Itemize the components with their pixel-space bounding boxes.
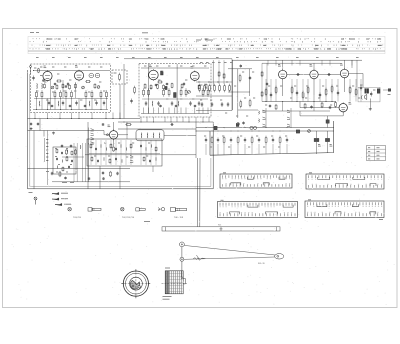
capacitor C58 (56, 158, 58, 159)
wire det h2 (238, 109, 258, 111)
coil L12 (152, 133, 155, 138)
resistor R46 (239, 74, 241, 76)
wire (351, 60, 353, 68)
wire junction (155, 157, 157, 161)
capacitor C34 (296, 74, 297, 76)
wire (279, 144, 281, 153)
resistor R47 (240, 100, 242, 102)
jumper links K2 (318, 177, 376, 186)
capacitor C53 (272, 138, 274, 140)
core F3 (296, 130, 299, 133)
wire (39, 119, 41, 131)
coil L18 (105, 148, 108, 151)
wire (188, 117, 190, 122)
capacitor C22 (166, 82, 168, 85)
resistor R75 (56, 148, 58, 151)
capacitor C72 (51, 172, 53, 173)
jumper links K4 (317, 204, 376, 214)
wire det chain spine (261, 63, 263, 101)
capacitor C66 (140, 144, 142, 145)
resistor R36 (181, 83, 183, 84)
resistor R44 (224, 84, 226, 86)
resistor R7 (71, 90, 73, 92)
trimmer TC5 (308, 130, 311, 133)
wire (36, 99, 38, 110)
capacitor C54 (286, 138, 288, 140)
trimmer TC1 (51, 86, 54, 89)
wire rf v3 (75, 82, 77, 98)
wire HT bus IF box (141, 67, 209, 69)
wire (230, 144, 232, 154)
wire (118, 134, 128, 136)
jumper links K3 (230, 205, 294, 215)
capacitor C6 (103, 101, 105, 103)
resistor R67 (211, 136, 213, 138)
wire avc v2 (223, 60, 225, 84)
resistor R20 (119, 73, 121, 75)
capacitor C36 (270, 93, 272, 95)
scan noise speckle (6, 31, 394, 304)
resistor R69 (237, 136, 239, 138)
wire (164, 134, 196, 136)
wire IF box bottom bus (141, 113, 209, 115)
electrolytic C31 (377, 89, 380, 93)
wire (100, 99, 102, 110)
wire (47, 99, 49, 110)
resistor R31 (171, 83, 173, 84)
wire (196, 110, 232, 112)
tube V2 EF89 (74, 71, 83, 80)
contact numbering K4 (307, 207, 382, 213)
resistor R11 (106, 90, 108, 92)
capacitor C42 (329, 106, 331, 107)
switch contact S1d (287, 110, 290, 112)
resistor R10 (100, 90, 102, 92)
wire (223, 144, 225, 155)
resistor R37 (198, 84, 200, 85)
resistor R16 (56, 84, 58, 85)
drum bracket (183, 279, 185, 284)
wire (105, 113, 107, 119)
capacitor C64 (95, 147, 97, 148)
resistor R13 (85, 81, 86, 83)
capacitor C19 (198, 101, 200, 103)
wire (383, 89, 388, 91)
capacitor C30 (240, 64, 242, 65)
resistor R76 (71, 150, 73, 153)
capacitor C23 (160, 104, 162, 107)
wire V6 cathode down (313, 95, 315, 111)
wire switch column (265, 108, 267, 128)
trimmer TC2 (82, 86, 85, 89)
resistor R48 (249, 99, 251, 101)
long verticals to bottom bus (73, 143, 75, 182)
resistor R40 (204, 84, 206, 86)
resistor R2 (36, 90, 38, 92)
tube V6 EF40 (310, 70, 318, 78)
dial scale baseline (28, 50, 385, 52)
resistor R80 (110, 143, 112, 144)
resistor R22 (143, 88, 145, 90)
resistor R9 (91, 90, 93, 92)
resistor R78 (62, 166, 64, 169)
capacitor C4 (76, 101, 78, 103)
capacitor C31 (248, 77, 249, 79)
wire avc v1 (218, 60, 220, 84)
svg-text:925: 925 (218, 225, 221, 227)
coil L9 (258, 119, 261, 122)
wire AVC bus (196, 95, 232, 97)
drive drum front view (123, 271, 148, 296)
capacitor C60 (68, 166, 70, 167)
capacitor C35 (327, 74, 328, 76)
capacitor C55 (61, 144, 63, 145)
svg-text:FIG. 20: FIG. 20 (258, 263, 266, 265)
capacitor C46 (37, 122, 39, 123)
resistor R73 (66, 149, 68, 150)
wire bus below IF box (118, 121, 213, 123)
wire rf v1 (50, 80, 52, 110)
IF section shield box (dashed) (139, 64, 211, 118)
arrow legend 1 (52, 192, 59, 194)
tube V3 ECH81 (149, 70, 159, 80)
resistor R61 (355, 88, 357, 90)
coil L15 (66, 150, 69, 153)
resistor R54 (275, 86, 277, 88)
lamp E2 (121, 207, 125, 211)
capacitor C12 (69, 104, 71, 107)
pulley bracket P1-P2 (181, 247, 183, 257)
capacitor C63 (103, 177, 105, 178)
resistor R53 (265, 88, 267, 90)
resistor R66 (113, 146, 115, 147)
trimmer TC6 (237, 123, 240, 126)
resistor R42 (214, 84, 216, 86)
IF box top labels (144, 65, 146, 67)
RF box top labels (40, 66, 42, 68)
wire (344, 78, 346, 92)
wire (202, 117, 204, 122)
IF transformer can 2 (176, 64, 178, 114)
resistor R58 (325, 88, 327, 90)
wire anode V7 (344, 60, 346, 69)
ground (53, 132, 55, 133)
dial scale number clusters (46, 39, 382, 49)
capacitor C17 (171, 101, 173, 103)
resistor R82 (155, 146, 157, 147)
capacitor C52 (258, 138, 260, 140)
capacitor C33 (266, 82, 268, 83)
capacitor C25 (194, 104, 196, 107)
terminal marks column (46, 139, 48, 141)
wire junction (120, 144, 122, 148)
capacitor C47 (102, 123, 104, 124)
dial cord lower run (184, 257, 275, 259)
resistor R8 (85, 90, 87, 92)
wire (251, 144, 253, 154)
wire detector top bus (228, 68, 252, 70)
capacitor C1 (33, 76, 35, 78)
wire (168, 108, 170, 114)
resistor R33 (150, 84, 152, 85)
long vertical wire x124 (123, 64, 125, 119)
wire sub-box internal bus (89, 153, 160, 155)
capacitor C43 (269, 104, 271, 105)
legend text in lower area (62, 182, 67, 184)
resistor R72 (279, 136, 281, 138)
resistor R64 (335, 101, 337, 102)
ground (369, 108, 371, 109)
dial scale band frame (28, 36, 385, 53)
wire (119, 113, 121, 119)
capacitor C29 (227, 102, 229, 104)
wire if h1 (142, 98, 208, 100)
diode D1 (89, 73, 94, 78)
dial pointer rail (925mm bar) (162, 227, 280, 231)
mounting screw symbol (34, 197, 37, 200)
drum centreline (162, 283, 188, 285)
capacitor C11 (51, 104, 53, 107)
contact arrows column V9 input (91, 129, 94, 131)
capacitor C67 (97, 159, 99, 160)
wire riser x153 low (152, 166, 154, 172)
resistor R68 (223, 136, 225, 138)
capacitor C41 (311, 105, 313, 106)
capacitor C16 (158, 101, 160, 103)
tube V1 ECH81 (43, 71, 52, 80)
resistor R1 (38, 68, 40, 69)
tuning spindle pulley P3 (275, 254, 284, 259)
resistor R26 (180, 88, 182, 90)
wire audio rail drops (267, 60, 269, 65)
wire (202, 108, 204, 114)
tube V8 EZ40 (339, 104, 347, 112)
right section bottom rail (210, 121, 334, 155)
switch contact S1a (263, 110, 266, 112)
resistor R74 (75, 149, 77, 150)
label above dial band centre (142, 32, 148, 34)
wire (282, 79, 284, 96)
drum centrelines (121, 283, 151, 285)
wire (163, 108, 165, 114)
wire V8 filament link (300, 107, 339, 109)
resistor R60 (349, 86, 351, 88)
wire (91, 99, 93, 110)
wire det v3 (249, 69, 251, 96)
wire (152, 117, 154, 122)
cord into drum (181, 261, 183, 277)
capacitor C40 (360, 86, 362, 88)
wire (282, 102, 284, 112)
wire (71, 113, 73, 119)
wire (244, 144, 246, 154)
drum text note (163, 296, 172, 298)
wire (106, 99, 108, 110)
wire (176, 117, 178, 122)
capacitor C8 (41, 80, 44, 82)
dial scale tick rows (30, 38, 383, 50)
core TR1a (314, 138, 319, 141)
resistor R39 (199, 84, 201, 86)
resistor R52 (261, 91, 263, 92)
capacitor C62 (88, 177, 90, 178)
small circle V9 input (107, 134, 109, 136)
wire (237, 144, 239, 154)
wire (65, 99, 67, 110)
wire lower bus 1 (85, 154, 196, 156)
core T1 (161, 71, 164, 75)
volume control block box (53, 147, 76, 174)
resistor R19 (75, 83, 77, 84)
ground (30, 127, 32, 128)
wire (47, 113, 49, 119)
wire riser x196 (195, 122, 197, 158)
resistor R24 (163, 88, 165, 90)
IF transformer can 1 (147, 64, 149, 114)
wire rf v2 (62, 80, 64, 98)
trimmer TC4 (188, 91, 191, 94)
wire (41, 99, 43, 110)
resistor R77 (66, 156, 68, 159)
antenna terminal A1 (30, 66, 32, 68)
resistor R56 (302, 91, 304, 93)
diode detector D3 (250, 126, 253, 129)
drum left dark band (166, 271, 169, 293)
lamp symbol with rays E3 (158, 208, 161, 211)
resistor R29 (207, 88, 209, 90)
resistor R50 (223, 73, 225, 74)
capacitor C13 (84, 104, 86, 107)
resistor R41 (209, 84, 211, 86)
capacitor C38 (319, 93, 321, 95)
wire (265, 144, 267, 154)
capacitor C45 (30, 122, 32, 123)
wire riser x88 (87, 122, 89, 189)
resistor R23 (148, 88, 150, 90)
capacitor C10 (65, 84, 67, 87)
resistor R38 (205, 83, 207, 84)
wire (316, 131, 318, 138)
wire (205, 144, 207, 155)
capacitor C26 (201, 102, 203, 104)
wire (164, 117, 166, 122)
wire to output transformer (349, 73, 363, 75)
capacitor C73 (170, 124, 171, 126)
wire (78, 113, 80, 119)
wire secondary rail (262, 62, 340, 64)
wire (47, 70, 49, 73)
resistor R51 (261, 71, 263, 72)
wire riser x100 (99, 166, 101, 189)
capacitor C14 (131, 99, 133, 101)
dial scale rules (28, 43, 385, 45)
wire audio low bus (262, 110, 330, 112)
wire riser x120 (119, 166, 121, 189)
wire grid coupling 1 (287, 74, 310, 76)
capacitor C68 (115, 157, 117, 158)
capacitor C39 (337, 91, 339, 93)
wire (182, 117, 184, 122)
wire (158, 108, 160, 114)
wire (59, 113, 61, 119)
resistor R30 (157, 81, 158, 83)
resistor R32 (144, 83, 146, 84)
capacitor C15 (145, 101, 147, 103)
coil L20 (150, 145, 153, 148)
capacitor C37 (296, 91, 298, 93)
dial cord upper run (184, 245, 275, 255)
resistor R79 (90, 143, 92, 144)
wire RF box bottom bus (33, 109, 108, 111)
wire (369, 99, 371, 108)
resistor R45 (229, 84, 231, 86)
core TR1b (325, 138, 329, 141)
capacitor C5 (96, 101, 98, 103)
resistor R5 (60, 90, 62, 92)
link lines to pointer mechanism (196, 158, 198, 227)
coil L6 (151, 101, 154, 106)
wire (33, 131, 35, 189)
wire (146, 117, 148, 122)
resistor R6 (65, 90, 67, 92)
coil L19 (125, 148, 128, 151)
wire V9 cathode (113, 139, 115, 146)
capacitor C49 (217, 138, 219, 140)
wire (54, 99, 56, 110)
resistor R17 (62, 83, 64, 84)
trimmer TC3 (97, 86, 100, 89)
arrow legend 2 (52, 198, 59, 200)
cord pulley P2 (180, 257, 184, 261)
wire V8 to power box (342, 112, 344, 116)
capacitor C7 (67, 83, 68, 85)
wire (185, 108, 187, 114)
wire audio mid bus (262, 101, 336, 103)
wire riser x232 (231, 60, 233, 110)
resistor R83 (91, 156, 93, 157)
core F1 (214, 126, 217, 129)
resistor R4 (54, 90, 56, 92)
wire junction (145, 147, 147, 151)
wire (286, 144, 288, 153)
resistor R15 (44, 83, 46, 84)
long vertical wire x120 (119, 84, 121, 119)
wire (313, 79, 315, 95)
wire (62, 156, 84, 158)
resistor R28 (202, 88, 204, 90)
resistor R27 (185, 88, 187, 90)
capacitor C27 (211, 102, 213, 104)
wire (112, 113, 114, 119)
wire (143, 108, 145, 114)
coil L7 (177, 101, 180, 106)
coil L11 (146, 133, 149, 138)
resistor R25 (168, 88, 170, 90)
wire (198, 108, 200, 114)
capacitor C28 (221, 102, 223, 104)
wire junction (121, 159, 123, 163)
capacitor C21 (155, 83, 157, 86)
resistor R85 (143, 156, 145, 157)
wire det v2 (237, 69, 239, 118)
wire (43, 131, 45, 137)
capacitor C2 (48, 101, 50, 103)
switch arrows inside sub-box (130, 156, 133, 158)
lamp holder sketch 1 (88, 208, 92, 211)
small shield box right of RF box (112, 70, 127, 84)
wire (217, 144, 219, 155)
voltage table (367, 146, 386, 161)
